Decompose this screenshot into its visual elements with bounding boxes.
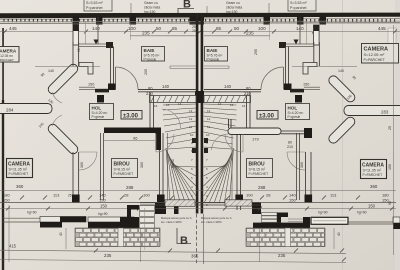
upper diagonal wall right [327, 74, 357, 104]
svg-text:288: 288 [258, 185, 266, 190]
birou east wall bottom-right [297, 133, 300, 200]
handrail posts left [192, 138, 196, 143]
svg-text:113: 113 [53, 193, 60, 198]
wall small room / BAIE right [279, 42, 314, 48]
svg-text:11: 11 [189, 125, 192, 129]
svg-text:HOL: HOL [288, 106, 298, 111]
photo right edge shading [395, 0, 400, 270]
svg-text:Geam cu: Geam cu [226, 1, 240, 5]
upper vertical wall stub right [314, 42, 320, 66]
svg-text:40: 40 [59, 232, 63, 236]
right vertical dim line [393, 25, 395, 255]
svg-text:366: 366 [191, 254, 199, 259]
svg-text:sticla mata: sticla mata [144, 6, 160, 10]
svg-text:14: 14 [178, 102, 182, 106]
window divider line left [85, 21, 87, 44]
svg-text:P=PARCHET: P=PARCHET [114, 172, 134, 176]
svg-text:10: 10 [190, 133, 194, 137]
svg-text:85: 85 [172, 26, 178, 31]
svg-text:P=gresie: P=gresie [288, 115, 301, 119]
center vertical lines to bottom [140, 228, 142, 262]
svg-text:B: B [180, 235, 188, 247]
entrance sill bar left [89, 223, 139, 229]
svg-text:P=PARCHET: P=PARCHET [363, 173, 383, 177]
BAIE east wall right [286, 47, 289, 90]
svg-text:284: 284 [6, 108, 14, 113]
svg-text:415: 415 [9, 244, 17, 249]
svg-text:16: 16 [154, 104, 158, 108]
svg-text:150: 150 [388, 164, 392, 170]
svg-text:hg=90: hg=90 [27, 211, 37, 215]
top exterior wall band [0, 13, 400, 19]
svg-text:P=parchet: P=parchet [86, 6, 102, 10]
BAIE door right [261, 67, 284, 90]
upper diagonal wall left [46, 62, 79, 95]
pier tops in band [73, 17, 327, 25]
east wall stub 283 [344, 106, 400, 116]
svg-text:P=gresie: P=gresie [207, 58, 220, 62]
svg-text:360: 360 [140, 162, 144, 168]
wall inner face line 1 [0, 20, 400, 23]
camera east wall pier bottom-left [72, 195, 80, 203]
dim 40 line left [65, 228, 67, 249]
door jamb left B [174, 202, 179, 214]
HOL south wall right (open L outline) [228, 119, 312, 138]
svg-text:Geam cu: Geam cu [144, 1, 158, 5]
stair tread numbers right [206, 102, 246, 207]
room label BAIE left [142, 47, 165, 62]
svg-text:295: 295 [254, 49, 258, 55]
small pier HOL right [295, 95, 302, 103]
stub wall left of HOL bar [79, 87, 95, 89]
window divider line right [306, 21, 308, 44]
level box +3.00 right [257, 111, 278, 120]
porch mat hatched right [225, 200, 252, 206]
stub wall right of HOL bar [304, 87, 320, 89]
stair east wall lower right [237, 133, 241, 210]
door jamb right [252, 203, 261, 215]
room label HOL left [90, 104, 114, 120]
hg=90 notes [27, 211, 367, 217]
top dimension line [0, 31, 400, 33]
landing hatch band left [150, 96, 197, 103]
room label CAMERA bottom-right [361, 160, 387, 179]
svg-text:S=8.15 m²: S=8.15 m² [114, 168, 131, 172]
svg-text:100: 100 [246, 193, 253, 198]
svg-text:P=PARCHET: P=PARCHET [0, 58, 14, 62]
stair west wall lower left [160, 133, 164, 210]
left mid vertical dims [80, 49, 304, 168]
svg-text:40: 40 [337, 232, 341, 236]
dim extension line top c [206, 6, 208, 14]
svg-text:50: 50 [234, 26, 240, 31]
dim 235 right [204, 31, 270, 36]
svg-text:210: 210 [287, 145, 293, 149]
bottom dim ticks row2 [20, 196, 360, 200]
porch window lines right [288, 219, 303, 222]
landing door arc right [212, 134, 229, 150]
window band A left [40, 217, 86, 228]
entrance sill bar right [253, 223, 307, 229]
label box S=3.53 right [288, 0, 316, 11]
svg-text:150: 150 [289, 198, 296, 203]
BAIE door left [116, 67, 139, 90]
door arc BIROU right [225, 134, 243, 152]
svg-text:B: B [183, 0, 191, 11]
bottom ticks [94, 249, 346, 262]
svg-text:150: 150 [368, 204, 376, 209]
svg-text:S=11.35 m²: S=11.35 m² [363, 169, 382, 173]
top dimension ticks [3, 30, 397, 34]
label box S=3.53 left [84, 0, 112, 11]
svg-text:P=gresie: P=gresie [92, 115, 105, 119]
svg-text:BAIE: BAIE [207, 48, 218, 53]
bottom room wall line 1 [0, 190, 396, 192]
dim extension verticals 235 [130, 23, 132, 40]
svg-text:288: 288 [126, 185, 134, 190]
band tick dashes [4, 19, 395, 22]
svg-text:loc. carte i=20%: loc. carte i=20% [201, 220, 222, 224]
lower diagonal wall right [327, 115, 357, 145]
central wall head block [195, 91, 204, 103]
svg-text:150: 150 [99, 198, 106, 203]
landing door arc left [162, 109, 181, 128]
room label BAIE right [205, 47, 228, 62]
svg-text:15: 15 [166, 103, 170, 107]
svg-text:140: 140 [162, 84, 170, 89]
svg-text:60x30: 60x30 [171, 159, 175, 168]
bottom dim line 2 [0, 260, 346, 263]
ticks on outer dim line [6, 207, 394, 211]
lower diagonal wall left [46, 122, 79, 155]
svg-text:P=PARCHET: P=PARCHET [249, 172, 269, 176]
svg-text:sticla mata: sticla mata [226, 6, 242, 10]
door dim 80/210 right [244, 86, 252, 96]
dim extension line top a [130, 3, 132, 14]
star dims right [346, 75, 357, 101]
room label BIROU bottom-right [247, 159, 273, 178]
svg-text:S=11.35 m²: S=11.35 m² [9, 168, 28, 172]
landing hatch band right [204, 96, 251, 103]
sheet border line left [2, 28, 4, 100]
svg-text:S=3.53 m²: S=3.53 m² [290, 1, 307, 5]
door arc camera bottom-right [287, 152, 305, 170]
note rampa acces right [201, 216, 232, 224]
brick strip right [246, 228, 325, 247]
svg-text:100: 100 [143, 193, 150, 198]
level triangle right [294, 40, 299, 45]
svg-text:S=3.53 m²: S=3.53 m² [86, 1, 103, 5]
camera west wall bottom-right [306, 152, 312, 200]
L wall stub right [303, 63, 317, 75]
level triangle left [94, 40, 99, 45]
svg-text:28: 28 [266, 193, 271, 198]
door arc camera bottom-left [79, 152, 97, 170]
stair south wall [140, 203, 260, 205]
svg-text:140: 140 [338, 69, 344, 73]
svg-text:445: 445 [9, 26, 17, 31]
dim extension line top b [268, 3, 270, 14]
svg-text:25: 25 [192, 29, 196, 33]
svg-text:CAMERA: CAMERA [0, 49, 17, 54]
upper vertical wall stub left [73, 42, 79, 66]
svg-text:14: 14 [218, 102, 222, 106]
svg-text:100: 100 [128, 26, 136, 31]
stair east wall upper right [247, 92, 251, 133]
handrail posts right [204, 138, 208, 143]
door arc star lower left [52, 115, 62, 126]
window band B right [393, 217, 400, 229]
bathtub edge left [170, 66, 196, 69]
level box +3.00 left [121, 111, 142, 120]
svg-text:445: 445 [378, 26, 386, 31]
svg-text:P=gresie: P=gresie [144, 58, 157, 62]
svg-text:150: 150 [100, 204, 108, 209]
svg-text:loc. carte i=20%: loc. carte i=20% [161, 220, 182, 224]
stair west wall upper left [150, 92, 154, 133]
svg-text:96: 96 [133, 136, 138, 141]
bay window dim line right [292, 67, 357, 74]
BAIE west wall left [111, 47, 114, 90]
svg-text:150: 150 [303, 83, 309, 87]
svg-text:12: 12 [189, 117, 193, 121]
L wall stub left [79, 63, 93, 75]
svg-text:28: 28 [124, 193, 129, 198]
bay window dim line left [35, 67, 100, 74]
facade line x98 [97, 17, 99, 44]
facade line x300 [299, 17, 301, 44]
bottom room wall line 2 [0, 202, 396, 204]
svg-text:100: 100 [258, 26, 266, 31]
svg-text:25: 25 [388, 126, 392, 130]
top dimension row numbers [9, 25, 386, 33]
central wall left leaf [196, 13, 199, 214]
svg-text:235: 235 [104, 253, 112, 258]
svg-text:11: 11 [207, 125, 210, 129]
room label CAMERA bottom-left [7, 159, 33, 178]
svg-text:25: 25 [68, 194, 72, 198]
bottom line full [0, 250, 346, 253]
right dim numbers rotated [388, 126, 392, 205]
svg-text:85: 85 [216, 26, 222, 31]
svg-text:S=12.05 m²: S=12.05 m² [364, 52, 385, 57]
room label HOL right [286, 104, 310, 120]
svg-text:150: 150 [3, 198, 10, 203]
door arc star upper left [52, 92, 62, 103]
door arc BIROU left [156, 134, 174, 152]
svg-text:140: 140 [224, 84, 232, 89]
svg-text:15: 15 [230, 103, 234, 107]
window pier left [73, 25, 79, 45]
window band B left [88, 217, 134, 228]
svg-text:90: 90 [388, 201, 392, 205]
entrance steps white left [140, 206, 155, 229]
entrance steps white right [262, 213, 278, 223]
window band A right [311, 217, 348, 224]
svg-text:hg=90: hg=90 [318, 211, 328, 215]
wall small room / BAIE left [78, 42, 113, 48]
HOL north wall right [204, 89, 304, 93]
left vertical dim line [8, 205, 10, 262]
svg-text:12: 12 [207, 117, 211, 121]
bottom dim row 1 numbers [16, 184, 378, 190]
svg-text:10: 10 [206, 133, 210, 137]
bottom dim row 2 numbers [3, 193, 389, 203]
svg-text:50: 50 [156, 26, 162, 31]
svg-text:13: 13 [189, 109, 193, 113]
dim 235 left [130, 31, 196, 36]
svg-text:hg=90: hg=90 [98, 212, 108, 216]
brick strip left [75, 228, 160, 247]
dim 40 line right [333, 228, 335, 249]
west wall stub 284 [0, 104, 52, 114]
HOL south wall bar left (L-shape) [104, 128, 161, 151]
svg-text:205: 205 [144, 69, 148, 75]
birou east pier bottom-left [157, 195, 165, 203]
svg-text:BAIE: BAIE [144, 48, 155, 53]
svg-text:360: 360 [80, 162, 84, 168]
svg-text:±3.00: ±3.00 [123, 114, 139, 120]
window pier right [314, 25, 320, 45]
camera east wall bottom-left [73, 152, 79, 200]
birou west wall bottom-left [101, 133, 104, 200]
porch mat hatched left [165, 200, 195, 207]
svg-text:179: 179 [252, 137, 259, 142]
svg-text:140: 140 [92, 26, 100, 31]
room label CAMERA top-left [0, 47, 19, 63]
entrance step silhouette left [120, 205, 139, 226]
svg-text:113: 113 [330, 193, 337, 198]
svg-text:S=8.15 m²: S=8.15 m² [249, 168, 266, 172]
bathtub edge right [204, 66, 229, 69]
HOL north wall left [95, 89, 196, 93]
stair treads right [204, 104, 237, 202]
note rampa acces left [161, 216, 192, 224]
door pier right [284, 84, 292, 91]
svg-text:P=PARCHET: P=PARCHET [9, 172, 29, 176]
svg-text:235: 235 [246, 31, 254, 36]
svg-text:±3.00: ±3.00 [259, 114, 275, 120]
svg-text:360: 360 [16, 184, 24, 189]
dim 150 labels row3 [100, 204, 376, 209]
svg-text:16: 16 [242, 104, 246, 108]
door dim 140 above BIROU left [104, 136, 155, 141]
wall inner face line 2 [0, 22, 400, 25]
small pier HOL left [97, 95, 104, 103]
door jamb left A [155, 202, 166, 214]
stair tread numbers left [154, 102, 194, 207]
star dims left [38, 72, 54, 129]
camera west wall pier bottom-right [305, 195, 313, 203]
birou west pier bottom-right [235, 195, 243, 203]
wall lines left of window [3, 218, 40, 222]
wall lines right gap [347, 222, 393, 224]
svg-text:360: 360 [370, 184, 378, 189]
svg-text:hg=90: hg=90 [357, 211, 367, 215]
faint paper crease [342, 0, 343, 270]
band lower edge line [0, 18, 400, 21]
svg-text:150: 150 [88, 83, 94, 87]
svg-text:235: 235 [142, 31, 150, 36]
window pier bottom right [303, 217, 310, 228]
central wall right leaf [201, 13, 204, 214]
svg-text:HOL: HOL [92, 106, 102, 111]
note Geam cu sticla mata left [144, 1, 160, 14]
outer dim line bottom [0, 208, 396, 210]
entrance step silhouette right [277, 213, 288, 223]
room label BIROU bottom-left [112, 159, 138, 178]
room label CAMERA top-right [362, 44, 399, 64]
svg-text:P=parchet: P=parchet [290, 6, 306, 10]
door dim 80/210 left [146, 86, 154, 96]
svg-text:360: 360 [300, 162, 304, 168]
svg-text:283: 283 [381, 110, 389, 115]
section marker B top [178, 0, 194, 17]
svg-text:P=PARCHET: P=PARCHET [364, 58, 386, 62]
section marker B bottom [177, 228, 191, 247]
door pier left [108, 84, 116, 91]
note Geam cu sticla mata right [226, 1, 242, 14]
stair treads left [163, 104, 196, 202]
svg-text:235: 235 [278, 253, 286, 258]
svg-text:140: 140 [48, 69, 54, 73]
svg-text:13: 13 [207, 109, 211, 113]
